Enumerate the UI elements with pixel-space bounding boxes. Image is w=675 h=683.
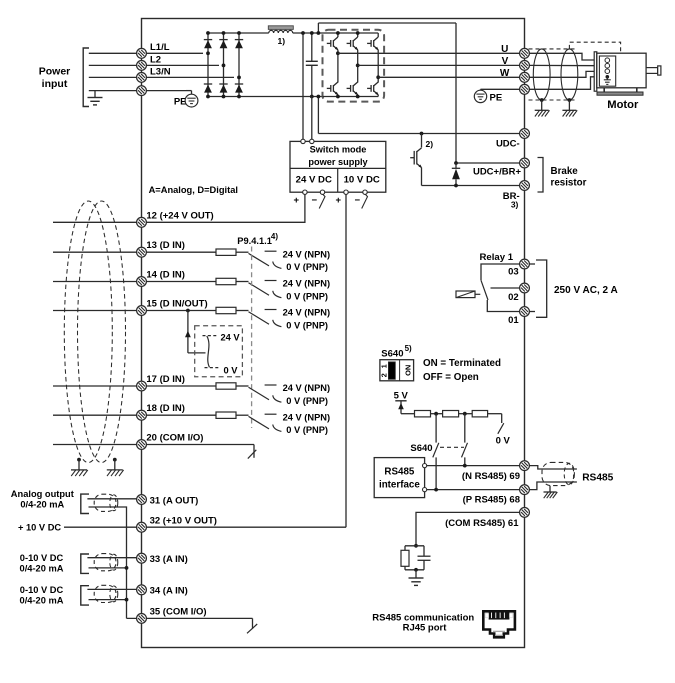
svg-text:resistor: resistor	[551, 177, 587, 188]
switch blade 13	[249, 253, 270, 266]
node leg2 top	[222, 31, 226, 35]
resistor term R3	[472, 411, 487, 417]
inverter leg 3 top spine	[377, 33, 379, 37]
terminal 13	[137, 247, 147, 257]
svg-text:PE: PE	[490, 92, 503, 103]
svg-text:(P RS485) 68: (P RS485) 68	[463, 495, 520, 506]
ground motor shield 2	[568, 100, 570, 110]
svg-text:+: +	[294, 195, 300, 206]
wire DC+ to SMPS	[302, 33, 304, 139]
terminal PE out	[520, 84, 530, 94]
wire relay 03	[481, 264, 520, 280]
wire 34 top	[87, 588, 146, 590]
terminal 02	[520, 283, 530, 293]
terminal 15	[137, 306, 147, 316]
capacitor RC	[423, 546, 425, 556]
brake resistor bracket	[538, 158, 544, 193]
svg-text:1: 1	[380, 364, 389, 368]
wire 5V drop	[400, 401, 402, 414]
pin SMPS in 2	[310, 139, 314, 143]
motor foot 2	[636, 88, 638, 92]
terminal 31	[137, 495, 147, 505]
op IGBT bottom Q5	[347, 87, 351, 89]
wire PE output	[481, 88, 521, 90]
contact PNP 18	[273, 425, 282, 432]
wire 34 bottom	[89, 599, 127, 601]
wire COM RS485 61	[416, 512, 520, 545]
wire terminal 12	[53, 221, 147, 223]
switch blade 14	[249, 283, 270, 296]
switch blade select	[207, 336, 210, 367]
wire L2 input	[89, 64, 219, 66]
analog in 33 bracket	[81, 554, 89, 573]
analog out bracket	[81, 494, 89, 513]
terminal 20	[137, 440, 147, 450]
analog in 34 shield	[94, 585, 116, 602]
wire terminal 20	[53, 444, 254, 446]
wire PE to motor	[529, 77, 603, 90]
wire 18 to switch	[236, 414, 249, 416]
wire 33 bottom	[89, 567, 127, 569]
wire 69 to shield	[529, 466, 577, 469]
motor foot 1	[603, 88, 605, 92]
terminal U	[520, 48, 530, 58]
svg-text:0/4-20 mA: 0/4-20 mA	[20, 500, 64, 510]
switch blade 18	[249, 416, 270, 429]
analog in 33 shield	[94, 554, 116, 571]
motor cable shield ellipse 2	[561, 49, 578, 100]
svg-text:12 (+24 V OUT): 12 (+24 V OUT)	[146, 210, 213, 221]
svg-text:ON = Terminated: ON = Terminated	[423, 358, 501, 369]
terminal 14	[137, 277, 147, 287]
wire 24V to terminal 12	[147, 194, 305, 222]
wire terminal 35	[127, 617, 253, 619]
motor PE dot	[606, 75, 610, 79]
svg-text:15 (D IN/OUT): 15 (D IN/OUT)	[146, 298, 207, 309]
node term 1	[434, 412, 438, 416]
selector dashed line P9.4.1.1	[251, 247, 253, 429]
terminal UDC+/BR+	[520, 158, 530, 168]
rectifier diode D4	[219, 83, 227, 85]
node term 2	[463, 412, 467, 416]
node shield gnd 1	[540, 98, 544, 102]
wire R1-R2	[431, 413, 443, 415]
pin RS485 if N	[423, 464, 427, 468]
resistor 15 input	[216, 307, 236, 313]
wire 13 to switch	[236, 251, 249, 253]
svg-text:0/4-20 mA: 0/4-20 mA	[20, 564, 64, 574]
svg-text:17 (D IN): 17 (D IN)	[146, 374, 185, 385]
wire 35 continuation slash	[247, 624, 257, 633]
terminal 68	[520, 485, 530, 495]
S640 DIP divider	[399, 360, 401, 381]
resistor 17 input	[216, 383, 236, 389]
svg-text:5 V: 5 V	[394, 390, 409, 401]
wire 20 continuation slash	[248, 450, 256, 459]
svg-text:RJ45 port: RJ45 port	[403, 623, 448, 634]
resistor 13 input	[216, 249, 236, 255]
inverter bottom bus	[323, 96, 379, 98]
terminal 33	[137, 553, 147, 563]
node chopper top	[420, 132, 424, 136]
op IGBT bottom Q4	[327, 87, 331, 89]
node DC+ riser	[317, 31, 321, 35]
svg-text:L2: L2	[150, 54, 161, 65]
wire chopper emitter	[421, 168, 423, 186]
motor terminal box	[599, 56, 615, 86]
svg-text:34 (A IN): 34 (A IN)	[150, 586, 188, 597]
svg-text:3): 3)	[511, 200, 519, 210]
svg-text:2: 2	[380, 373, 389, 377]
rectifier leg 3 wire	[238, 33, 240, 97]
motor terminal 2	[605, 63, 610, 68]
motor cable shield ellipse 1	[533, 49, 550, 100]
wire relay 01	[487, 300, 520, 312]
svg-text:20 (COM I/O): 20 (COM I/O)	[146, 432, 203, 443]
svg-text:10 V DC: 10 V DC	[344, 175, 380, 186]
terminal 01	[520, 307, 530, 317]
motor cable shield top dashed	[529, 48, 577, 50]
diode brake	[455, 163, 457, 168]
terminal W	[520, 72, 530, 82]
svg-text:Switch mode: Switch mode	[310, 144, 367, 154]
wire 15 to switch	[236, 310, 249, 312]
inverter dashed box	[323, 30, 385, 102]
wire L3 input	[89, 76, 234, 78]
terminal 03	[520, 259, 530, 269]
rectifier diode D5	[235, 39, 243, 41]
rectifier leg 2 wire	[223, 33, 225, 97]
switch blade 10V minus	[362, 194, 368, 208]
svg-text:18 (D IN): 18 (D IN)	[146, 403, 185, 414]
inverter leg 2 top spine	[357, 33, 359, 37]
contact 24V select	[203, 335, 218, 337]
SMPS divider v	[337, 168, 339, 192]
svg-text:S640: S640	[381, 348, 403, 359]
wire L1 input	[89, 52, 203, 54]
SMPS divider h	[290, 167, 386, 169]
rectifier diode D3	[219, 39, 227, 41]
svg-text:Brake: Brake	[551, 166, 579, 177]
svg-text:01: 01	[508, 315, 519, 326]
terminal 69	[520, 461, 530, 471]
svg-text:L3/N: L3/N	[150, 66, 171, 77]
contact NPN 17	[265, 384, 277, 386]
node 69 S640	[463, 464, 467, 468]
resistor term R2	[443, 411, 459, 417]
wire relay 02	[491, 287, 521, 289]
svg-text:0 V (PNP): 0 V (PNP)	[286, 396, 328, 406]
resistor 14 input	[216, 278, 236, 284]
wire V output	[358, 64, 520, 66]
svg-text:ON: ON	[403, 365, 412, 376]
svg-text:UDC+/BR+: UDC+/BR+	[473, 167, 521, 178]
svg-text:0 V (PNP): 0 V (PNP)	[286, 425, 328, 435]
wire 17 to switch	[236, 385, 249, 387]
svg-text:S640: S640	[410, 443, 432, 454]
resistor 18 input	[216, 412, 236, 418]
op IGBT top Q3	[367, 42, 371, 44]
node leg2 input	[222, 64, 226, 68]
inverter leg 1 top spine	[337, 33, 339, 37]
pin 10V plus	[344, 190, 348, 194]
terminal BR-	[520, 181, 530, 191]
wire stub 01	[529, 311, 535, 313]
svg-text:24 V (NPN): 24 V (NPN)	[283, 308, 331, 318]
svg-text:24 V (NPN): 24 V (NPN)	[283, 279, 331, 289]
node cap bottom	[310, 95, 314, 99]
node leg3 bottom	[237, 95, 241, 99]
wire DC+ top link	[317, 23, 319, 33]
svg-text:0 V (PNP): 0 V (PNP)	[286, 320, 328, 330]
svg-text:Motor: Motor	[607, 99, 639, 111]
svg-text:−: −	[355, 195, 361, 206]
analog out shield	[94, 494, 116, 511]
node inv top 2	[356, 31, 360, 35]
svg-text:24 V (NPN): 24 V (NPN)	[283, 412, 331, 422]
pin 24V minus	[320, 190, 324, 194]
terminal L2	[137, 61, 147, 71]
inductor 1) DC choke	[268, 26, 293, 30]
terminal 18	[137, 410, 147, 420]
wire 15 branch into box	[188, 352, 206, 354]
node inv bottom 1	[336, 95, 340, 99]
contact NPN 14	[265, 280, 277, 282]
motor flange	[594, 52, 597, 91]
svg-text:L1/L: L1/L	[150, 42, 170, 53]
S640 switch left blade	[433, 443, 439, 458]
svg-text:14 (D IN): 14 (D IN)	[146, 269, 185, 280]
rectifier top bus	[208, 32, 269, 34]
node RC top	[414, 544, 418, 548]
svg-text:5): 5)	[405, 344, 412, 353]
resistor term R1	[415, 411, 431, 417]
inverter leg 2 mid spine	[357, 50, 359, 83]
wire PE input	[89, 90, 186, 92]
ground shield left 1	[78, 460, 80, 470]
node leg1 bottom	[206, 95, 210, 99]
svg-text:PE: PE	[174, 97, 187, 108]
svg-text:24 V: 24 V	[221, 333, 241, 343]
contact NPN 15	[265, 309, 277, 311]
inverter top bus	[323, 32, 379, 34]
terminal PE in	[137, 86, 147, 96]
op brake chopper IGBT 2)	[410, 157, 414, 159]
svg-text:A=Analog, D=Digital: A=Analog, D=Digital	[149, 185, 238, 195]
svg-text:Analog output: Analog output	[11, 489, 74, 499]
wire terminal 14	[53, 281, 216, 283]
contact PNP 14	[273, 291, 282, 298]
node phase U	[336, 51, 340, 55]
svg-text:(COM RS485) 61: (COM RS485) 61	[445, 518, 519, 529]
wire 31 bottom to bus	[89, 507, 127, 618]
op IGBT top Q1	[327, 42, 331, 44]
terminal 17	[137, 381, 147, 391]
wire 5V to R1	[401, 413, 415, 415]
terminal L1/L	[137, 48, 147, 58]
wire 68 to shield	[529, 482, 577, 490]
ground motor shield 1	[541, 100, 543, 110]
terminal UDC-	[520, 129, 530, 139]
rectifier diode D2	[204, 83, 212, 85]
svg-text:0-10 V DC: 0-10 V DC	[20, 585, 64, 595]
svg-text:OFF = Open: OFF = Open	[423, 372, 479, 383]
wire DC- to UDC-	[317, 97, 319, 134]
svg-text:02: 02	[508, 292, 519, 303]
node leg1 top	[206, 31, 210, 35]
wire terminal 15	[53, 310, 216, 312]
motor base	[597, 92, 643, 95]
wire choke to DC link	[293, 32, 323, 34]
node inv top 1	[336, 31, 340, 35]
rectifier bottom bus	[208, 96, 323, 98]
cable shield left ellipse 2	[78, 201, 126, 463]
terminal 32	[137, 522, 147, 532]
RS485 shield capsule	[542, 462, 574, 485]
svg-text:RS485: RS485	[384, 466, 415, 477]
wire R3 to 0V	[488, 413, 502, 415]
svg-text:W: W	[500, 68, 510, 79]
svg-text:33 (A IN): 33 (A IN)	[150, 554, 188, 565]
node shield left 1	[77, 458, 81, 462]
wire U to motor	[529, 53, 603, 60]
contact PNP 15	[273, 320, 282, 327]
svg-text:−: −	[312, 195, 318, 206]
svg-text:0 V: 0 V	[496, 436, 511, 447]
contact PNP 13	[273, 262, 282, 269]
node terminal 15 branch	[186, 309, 190, 313]
shield bond dashed to motor	[569, 42, 620, 53]
svg-text:P9.4.1.1: P9.4.1.1	[237, 236, 272, 246]
wire stub 03	[529, 263, 535, 265]
svg-text:0 V: 0 V	[224, 366, 239, 376]
node phase W	[376, 75, 380, 79]
svg-text:2): 2)	[426, 139, 434, 149]
terminal L3/N	[137, 73, 147, 83]
node leg2 bottom	[222, 95, 226, 99]
ground input earth	[94, 91, 96, 97]
svg-text:03: 03	[508, 267, 519, 278]
S640 switch right upper	[464, 414, 466, 443]
wire W output	[378, 76, 520, 78]
svg-text:interface: interface	[379, 479, 420, 490]
wire cap to SMPS	[311, 97, 313, 140]
contact PNP 17	[273, 395, 282, 402]
SMPS box	[290, 141, 386, 192]
svg-text:24 V DC: 24 V DC	[296, 175, 332, 186]
inverter leg 3 bot spine	[377, 95, 379, 97]
wire terminal 32	[64, 526, 346, 528]
wire terminal 17	[53, 385, 216, 387]
ground RC earth	[415, 570, 417, 578]
svg-text:+: +	[336, 195, 342, 206]
pin 24V plus	[303, 190, 307, 194]
wire 33 top	[87, 557, 146, 559]
svg-text:13 (D IN): 13 (D IN)	[146, 240, 185, 251]
op IGBT top Q2	[347, 42, 351, 44]
S640 switch left upper	[435, 414, 437, 443]
terminal 12	[137, 217, 147, 227]
capacitor DC link	[311, 33, 313, 61]
node 68 S640	[434, 488, 438, 492]
svg-text:0-10 V DC: 0-10 V DC	[20, 553, 64, 563]
drive enclosure box	[142, 19, 525, 648]
wire 31 top	[87, 498, 146, 500]
resistor RC	[404, 546, 406, 551]
pin RS485 if P	[423, 488, 427, 492]
terminal 61	[520, 508, 530, 518]
contact NPN 18	[265, 413, 277, 415]
RJ45 port icon	[483, 611, 515, 637]
svg-text:24 V (NPN): 24 V (NPN)	[283, 249, 331, 259]
relay coil	[456, 291, 475, 298]
svg-text:power supply: power supply	[308, 157, 368, 167]
motor shaft	[646, 68, 658, 74]
relay bracket	[536, 260, 547, 317]
node leg1 input	[206, 51, 210, 55]
switch blade 15	[249, 312, 270, 325]
svg-text:31 (A OUT): 31 (A OUT)	[150, 495, 199, 506]
svg-text:V: V	[502, 56, 509, 67]
wire chopper drop	[421, 134, 423, 148]
svg-text:Relay 1: Relay 1	[480, 252, 514, 263]
svg-text:Power: Power	[39, 66, 71, 78]
svg-text:(N RS485) 69: (N RS485) 69	[462, 471, 520, 482]
svg-text:35 (COM I/O): 35 (COM I/O)	[150, 606, 207, 617]
op IGBT bottom Q6	[367, 87, 371, 89]
svg-text:0 V (PNP): 0 V (PNP)	[286, 291, 328, 301]
ground RS485 shield	[549, 486, 551, 492]
switch 0V open blade	[498, 423, 504, 434]
switch blade 17	[249, 387, 270, 400]
svg-text:0 V (PNP): 0 V (PNP)	[286, 262, 328, 272]
inverter leg 3 mid spine	[377, 50, 379, 83]
wire 15 branch down	[187, 311, 189, 353]
wire V to motor	[529, 64, 603, 66]
RC loop top	[405, 545, 424, 547]
node shield gnd 2	[568, 98, 572, 102]
node cap top	[310, 31, 314, 35]
wire terminal 13	[53, 251, 216, 253]
cable shield left ellipse 1	[64, 201, 112, 463]
svg-text:RS485: RS485	[582, 473, 613, 484]
S640 DIP switch box	[380, 360, 414, 381]
node shield left 2	[113, 458, 117, 462]
svg-text:UDC-: UDC-	[496, 139, 520, 150]
node leg3 input	[237, 76, 241, 80]
rectifier leg 1 wire	[207, 33, 209, 97]
DIN/OUT select dashed box	[195, 326, 243, 377]
inverter leg 2 bot spine	[357, 95, 359, 97]
motor PE earth	[606, 77, 608, 80]
S640 link dashed	[440, 446, 464, 448]
terminal V	[520, 61, 530, 71]
wire R2-R3	[459, 413, 473, 415]
supply 5V bar	[395, 400, 406, 402]
wire BR- row	[422, 185, 521, 187]
contact 0V select	[205, 367, 220, 369]
S640 DIP slider	[388, 362, 395, 379]
power input bracket	[83, 48, 89, 107]
svg-text:+ 10 V DC: + 10 V DC	[18, 523, 61, 533]
svg-text:4): 4)	[271, 232, 278, 241]
svg-text:1): 1)	[278, 36, 286, 46]
motor cable shield bottom dashed	[529, 99, 577, 101]
S640 switch right blade	[462, 443, 468, 458]
wire P RS485 68	[427, 489, 520, 491]
inverter leg 1 mid spine	[337, 50, 339, 83]
node RC bottom	[414, 568, 418, 572]
